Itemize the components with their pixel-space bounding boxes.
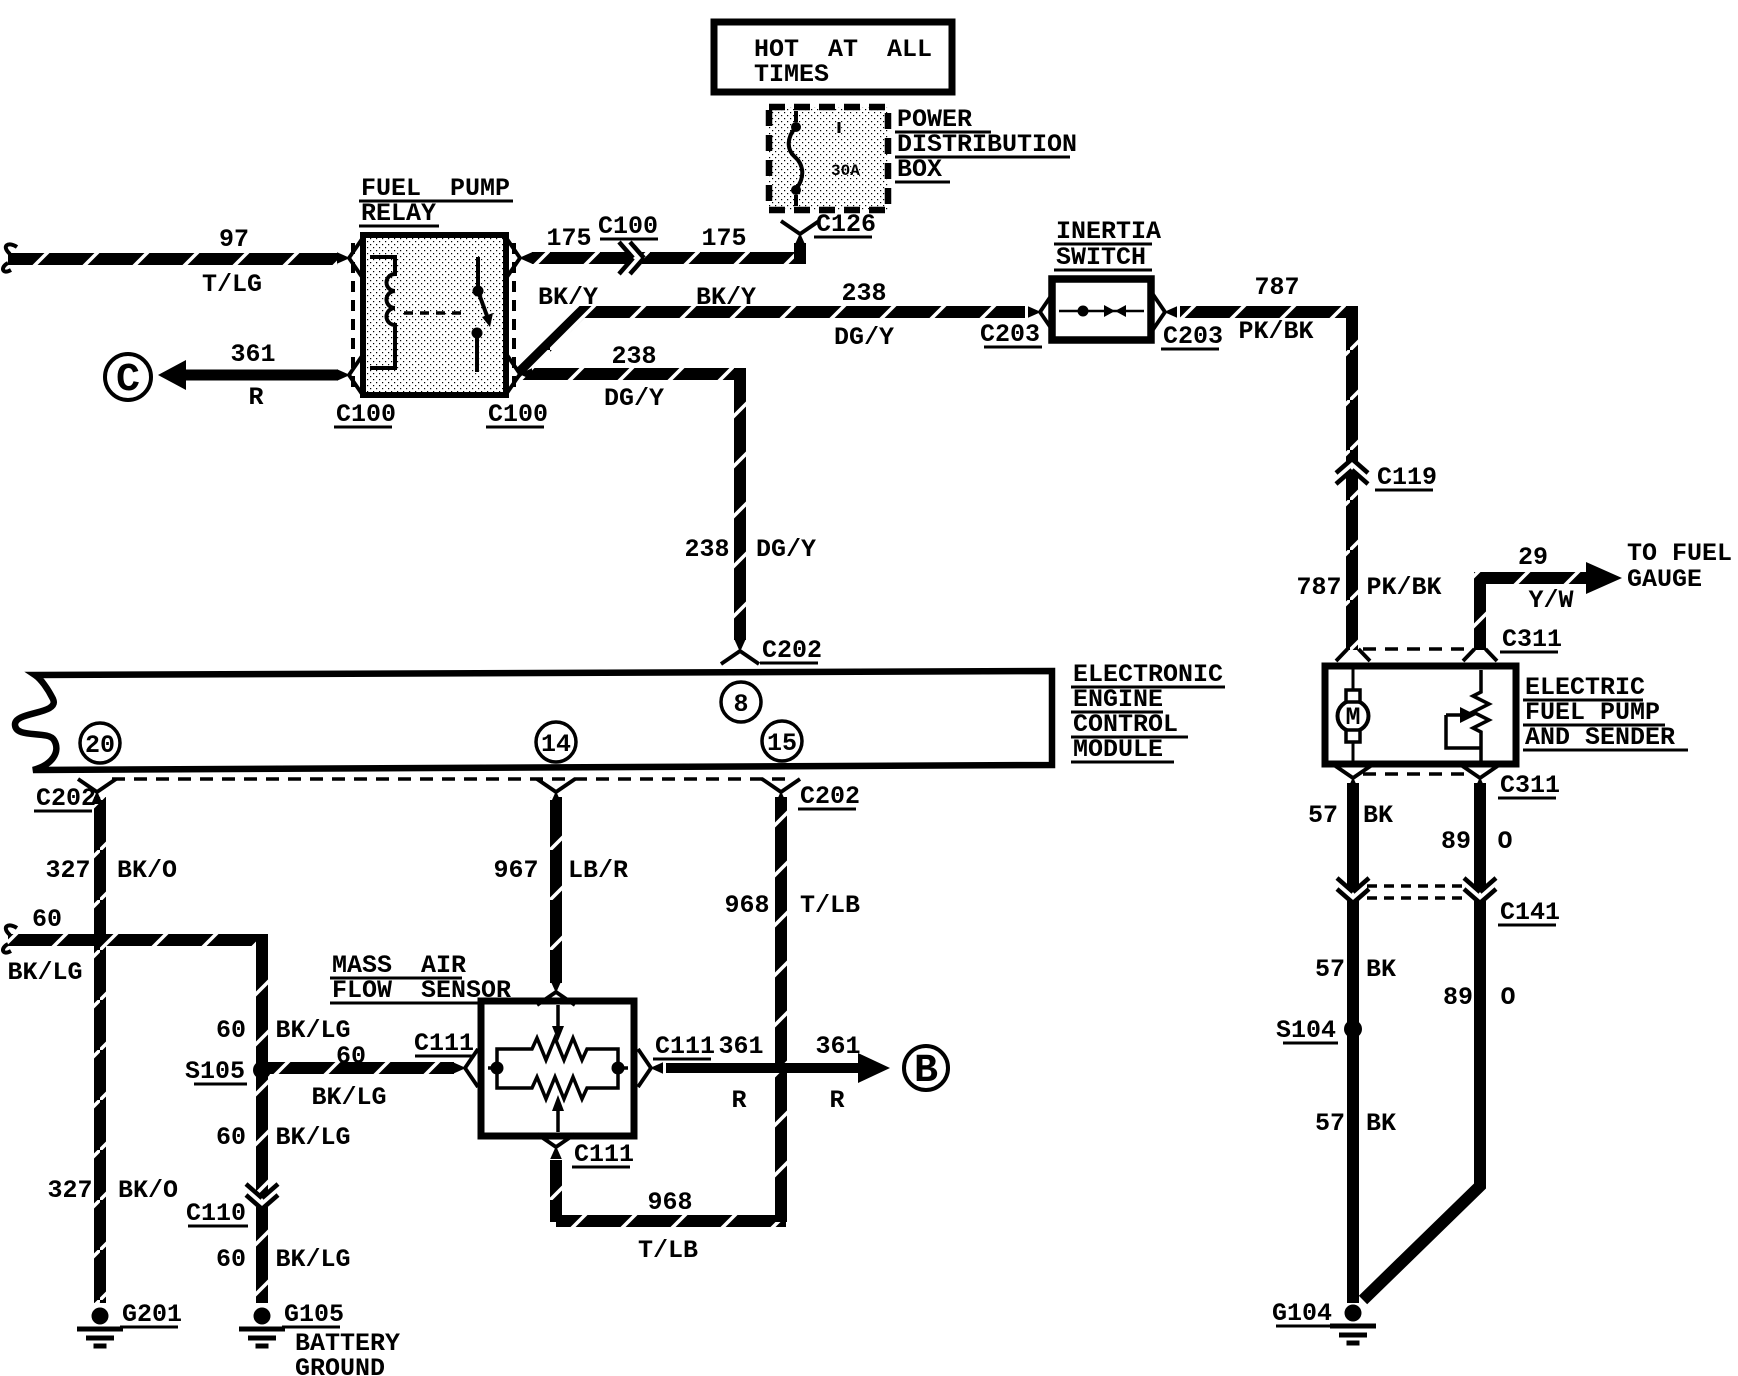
- svg-text:787: 787: [1296, 573, 1341, 602]
- inertia switch contacts: [1059, 310, 1144, 313]
- connector C100 relay left top: [337, 239, 362, 277]
- connector C203 right: [1152, 293, 1177, 331]
- connector C202 pin 14: [537, 779, 575, 804]
- connector C126: [781, 221, 819, 246]
- svg-text:PK/BK: PK/BK: [1366, 573, 1441, 602]
- svg-text:BK/LG: BK/LG: [275, 1123, 350, 1152]
- svg-text:60: 60: [216, 1016, 246, 1045]
- fuel pump relay box: [363, 235, 506, 395]
- svg-text:S104: S104: [1276, 1016, 1336, 1045]
- connector C110 in-line: [246, 1184, 278, 1209]
- svg-text:T/LB: T/LB: [638, 1236, 698, 1265]
- connector C111 MAF right: [638, 1049, 663, 1087]
- svg-text:BK/Y: BK/Y: [538, 283, 598, 312]
- underline C100s: [600, 238, 658, 241]
- svg-text:C100: C100: [336, 400, 396, 429]
- connector C111 MAF left: [453, 1049, 478, 1087]
- svg-text:327: 327: [45, 856, 90, 885]
- wire 57 BK upper: [1347, 783, 1359, 890]
- relay switch: [477, 257, 487, 372]
- underline C311 bottom: [1498, 797, 1556, 800]
- wire 361 R to connector C: [182, 370, 338, 381]
- fuse 30A: [789, 111, 803, 206]
- wire 57 BK lower: [1347, 901, 1359, 1303]
- underline FUEL PUMP RELAY: [359, 200, 513, 203]
- svg-text:DG/Y: DG/Y: [834, 323, 894, 352]
- svg-text:967: 967: [493, 856, 538, 885]
- electric fuel pump and sender box: [1325, 666, 1516, 764]
- svg-text:C111: C111: [655, 1032, 715, 1061]
- svg-text:60: 60: [32, 905, 62, 934]
- wire 60 BK/LG vertical upper: [256, 935, 268, 1196]
- underline ELECTRONIC ENGINE CONTROL MODULE: [1071, 686, 1225, 689]
- ground G105: [239, 1308, 285, 1347]
- connector C119 in-line: [1336, 459, 1368, 484]
- svg-text:C203: C203: [1163, 322, 1223, 351]
- relay coil: [370, 257, 395, 368]
- svg-text:238: 238: [684, 535, 729, 564]
- wire 238 DG/Y down to ECM pin 8: [519, 374, 740, 640]
- connector C141 in-line left: [1337, 878, 1369, 903]
- wire 787 PK/BK lower: [1346, 472, 1358, 650]
- wire 967 LB/R: [550, 797, 562, 983]
- MAF resistor loop: [488, 1005, 628, 1132]
- svg-text:BK/O: BK/O: [117, 856, 177, 885]
- svg-text:C202: C202: [762, 636, 822, 665]
- ECM bottom connector dashes: [112, 777, 788, 781]
- wire 97 T/LG: [8, 253, 338, 265]
- connector C311 pump bottom right: [1461, 765, 1499, 790]
- wire 60 torn end: [3, 925, 17, 952]
- svg-text:327: 327: [47, 1176, 92, 1205]
- svg-text:R: R: [829, 1086, 844, 1115]
- ECM pin 8: [721, 682, 761, 722]
- svg-text:BK/LG: BK/LG: [311, 1083, 386, 1112]
- svg-text:BK/O: BK/O: [118, 1176, 178, 1205]
- circuit connector B: [904, 1046, 948, 1090]
- connector C100 in-line: [619, 242, 644, 274]
- ECM pin 20: [80, 723, 120, 763]
- svg-text:G104: G104: [1272, 1299, 1332, 1328]
- wire 238 DG/Y to inertia switch: [519, 312, 1025, 374]
- svg-text:57: 57: [1308, 801, 1338, 830]
- underline G104: [1276, 1325, 1334, 1328]
- svg-text:MODULE: MODULE: [1073, 735, 1163, 764]
- wire 60 BK/LG splice to MAF: [262, 1062, 454, 1074]
- connector C311 pump top left: [1336, 649, 1370, 661]
- connector C202 pin 15: [762, 779, 800, 804]
- underline C202s: [760, 662, 818, 665]
- underline MASS AIR FLOW SENSOR: [330, 977, 462, 980]
- svg-text:TIMES: TIMES: [754, 60, 829, 89]
- svg-text:FLOW SENSOR: FLOW SENSOR: [332, 976, 511, 1005]
- fuel pump motor M: [1338, 701, 1369, 732]
- svg-text:175: 175: [701, 224, 746, 253]
- underline C110: [188, 1225, 248, 1228]
- connector C203 left: [1028, 293, 1053, 331]
- arrow to fuel gauge: [1586, 562, 1622, 594]
- svg-text:57: 57: [1315, 1109, 1345, 1138]
- wire 175 BK/Y left: [532, 252, 631, 264]
- underline S105: [194, 1083, 247, 1086]
- svg-text:C311: C311: [1502, 625, 1562, 654]
- inertia switch box: [1052, 279, 1151, 340]
- HOT AT ALL TIMES box: [714, 22, 952, 92]
- ECM pin 15: [762, 721, 802, 761]
- fuel sender variable resistor: [1446, 670, 1489, 761]
- underline C119: [1375, 489, 1433, 492]
- svg-text:89: 89: [1443, 983, 1473, 1012]
- svg-text:361: 361: [718, 1032, 763, 1061]
- underline C111s: [415, 1055, 473, 1058]
- svg-text:20: 20: [85, 731, 115, 760]
- svg-text:Y/W: Y/W: [1528, 586, 1573, 615]
- svg-text:BK: BK: [1366, 955, 1396, 984]
- connector C100 relay left bottom: [337, 356, 362, 394]
- svg-text:175: 175: [546, 224, 591, 253]
- splice S105: [253, 1061, 271, 1079]
- svg-text:RELAY: RELAY: [361, 199, 436, 228]
- connector C141 in-line right: [1464, 878, 1496, 903]
- svg-text:C111: C111: [414, 1029, 474, 1058]
- svg-text:BK/LG: BK/LG: [7, 958, 82, 987]
- relay connector dashes right: [512, 243, 516, 388]
- svg-text:C119: C119: [1377, 463, 1437, 492]
- connector C100 relay right top: [507, 239, 532, 277]
- svg-text:BK/LG: BK/LG: [275, 1245, 350, 1274]
- svg-text:BK: BK: [1363, 801, 1393, 830]
- wire 327 BK/O: [94, 797, 106, 1303]
- arrowhead to B: [858, 1053, 890, 1083]
- ECM pin 14: [536, 722, 576, 762]
- wire 60 BK/LG horizontal: [8, 934, 262, 946]
- wire 97 torn end: [3, 244, 17, 271]
- svg-text:R: R: [731, 1086, 746, 1115]
- underline C311 top: [1500, 651, 1558, 654]
- splice S104: [1344, 1020, 1362, 1038]
- svg-text:B: B: [914, 1049, 938, 1094]
- underline G201: [120, 1326, 178, 1329]
- svg-text:AND SENDER: AND SENDER: [1525, 723, 1675, 752]
- C141 dashes: [1367, 886, 1467, 898]
- underline C141: [1498, 924, 1556, 927]
- svg-text:O: O: [1500, 983, 1515, 1012]
- connector C100 relay right bottom: [507, 355, 532, 393]
- svg-text:C126: C126: [816, 210, 876, 239]
- wire 60 BK/LG vertical lower: [256, 1207, 268, 1303]
- svg-text:G105: G105: [284, 1300, 344, 1329]
- connector C202 pin 20: [78, 779, 116, 804]
- svg-text:TO FUEL: TO FUEL: [1627, 539, 1732, 568]
- svg-text:BK: BK: [1366, 1109, 1396, 1138]
- svg-text:787: 787: [1254, 273, 1299, 302]
- svg-text:INERTIA: INERTIA: [1056, 217, 1161, 246]
- svg-text:R: R: [248, 383, 263, 412]
- wire 787 PK/BK upper: [1180, 312, 1352, 461]
- relay connector dashes left: [351, 243, 355, 388]
- svg-text:C: C: [116, 358, 140, 403]
- svg-text:361: 361: [815, 1032, 860, 1061]
- svg-text:60: 60: [336, 1042, 366, 1071]
- wire 968 T/LB: [556, 797, 786, 1221]
- underline INERTIA SWITCH: [1054, 243, 1152, 246]
- svg-text:C111: C111: [574, 1140, 634, 1169]
- svg-text:G201: G201: [122, 1300, 182, 1329]
- arrowhead to C: [158, 360, 186, 390]
- svg-text:BOX: BOX: [897, 155, 942, 184]
- connector C311 pump top right: [1463, 649, 1497, 661]
- wire 89 O upper: [1474, 783, 1486, 890]
- svg-text:60: 60: [216, 1123, 246, 1152]
- svg-text:30A: 30A: [831, 162, 860, 180]
- svg-text:C203: C203: [980, 320, 1040, 349]
- wire corner patches: [734, 368, 746, 381]
- svg-text:97: 97: [219, 225, 249, 254]
- connector C111 MAF top: [537, 980, 575, 1005]
- underline C126: [814, 236, 872, 239]
- underline S104: [1283, 1042, 1338, 1045]
- underline G105: [282, 1326, 340, 1329]
- wire 89 O lower: [1363, 901, 1480, 1300]
- underline C203s: [984, 346, 1042, 349]
- svg-text:15: 15: [767, 729, 797, 758]
- connector C111 MAF bottom: [537, 1134, 575, 1159]
- ground G201: [77, 1308, 123, 1347]
- C311 top dashes: [1363, 647, 1470, 651]
- svg-text:T/LG: T/LG: [202, 270, 262, 299]
- power distribution box: [769, 107, 888, 210]
- svg-text:T/LB: T/LB: [800, 891, 860, 920]
- svg-text:C100: C100: [488, 400, 548, 429]
- svg-text:LB/R: LB/R: [568, 856, 628, 885]
- svg-text:M: M: [1345, 703, 1360, 732]
- wire 175 BK/Y right: [642, 245, 800, 258]
- relay coil-switch dashed link: [404, 311, 468, 315]
- svg-text:C202: C202: [36, 784, 96, 813]
- svg-text:DG/Y: DG/Y: [756, 535, 816, 564]
- svg-text:89: 89: [1441, 827, 1471, 856]
- svg-text:968: 968: [647, 1188, 692, 1217]
- svg-text:60: 60: [216, 1245, 246, 1274]
- circuit connector C: [105, 354, 151, 400]
- wire 29 Y/W: [1480, 578, 1588, 650]
- mass air flow sensor box: [481, 1001, 634, 1136]
- svg-text:C311: C311: [1500, 771, 1560, 800]
- svg-text:C100: C100: [598, 212, 658, 241]
- svg-text:O: O: [1497, 827, 1512, 856]
- ECM box: [15, 671, 1052, 770]
- ground G104: [1330, 1305, 1376, 1344]
- svg-text:8: 8: [733, 690, 748, 719]
- svg-text:238: 238: [611, 342, 656, 371]
- svg-text:C202: C202: [800, 782, 860, 811]
- svg-text:238: 238: [841, 279, 886, 308]
- svg-text:C141: C141: [1500, 898, 1560, 927]
- wire 361 R from MAF: [666, 1063, 858, 1073]
- svg-text:SWITCH: SWITCH: [1056, 243, 1146, 272]
- svg-text:C110: C110: [186, 1199, 246, 1228]
- svg-text:PK/BK: PK/BK: [1238, 317, 1313, 346]
- svg-text:BK/Y: BK/Y: [696, 283, 756, 312]
- svg-text:GROUND: GROUND: [295, 1354, 385, 1376]
- svg-text:29: 29: [1518, 543, 1548, 572]
- svg-text:57: 57: [1315, 955, 1345, 984]
- svg-text:BK/LG: BK/LG: [275, 1016, 350, 1045]
- connector C202 top (pin 8): [721, 639, 759, 664]
- svg-text:DG/Y: DG/Y: [604, 384, 664, 413]
- underline ELECTRIC FUEL PUMP AND SENDER: [1523, 699, 1643, 702]
- svg-text:S105: S105: [185, 1057, 245, 1086]
- svg-text:GAUGE: GAUGE: [1627, 565, 1702, 594]
- wire corner patch at C126: [794, 243, 806, 259]
- svg-text:361: 361: [230, 340, 275, 369]
- svg-text:14: 14: [541, 730, 571, 759]
- connector C311 pump bottom left: [1334, 765, 1372, 790]
- underline POWER DISTRIBUTION BOX: [895, 131, 991, 134]
- svg-text:968: 968: [724, 891, 769, 920]
- C311 bottom dashes: [1363, 772, 1470, 776]
